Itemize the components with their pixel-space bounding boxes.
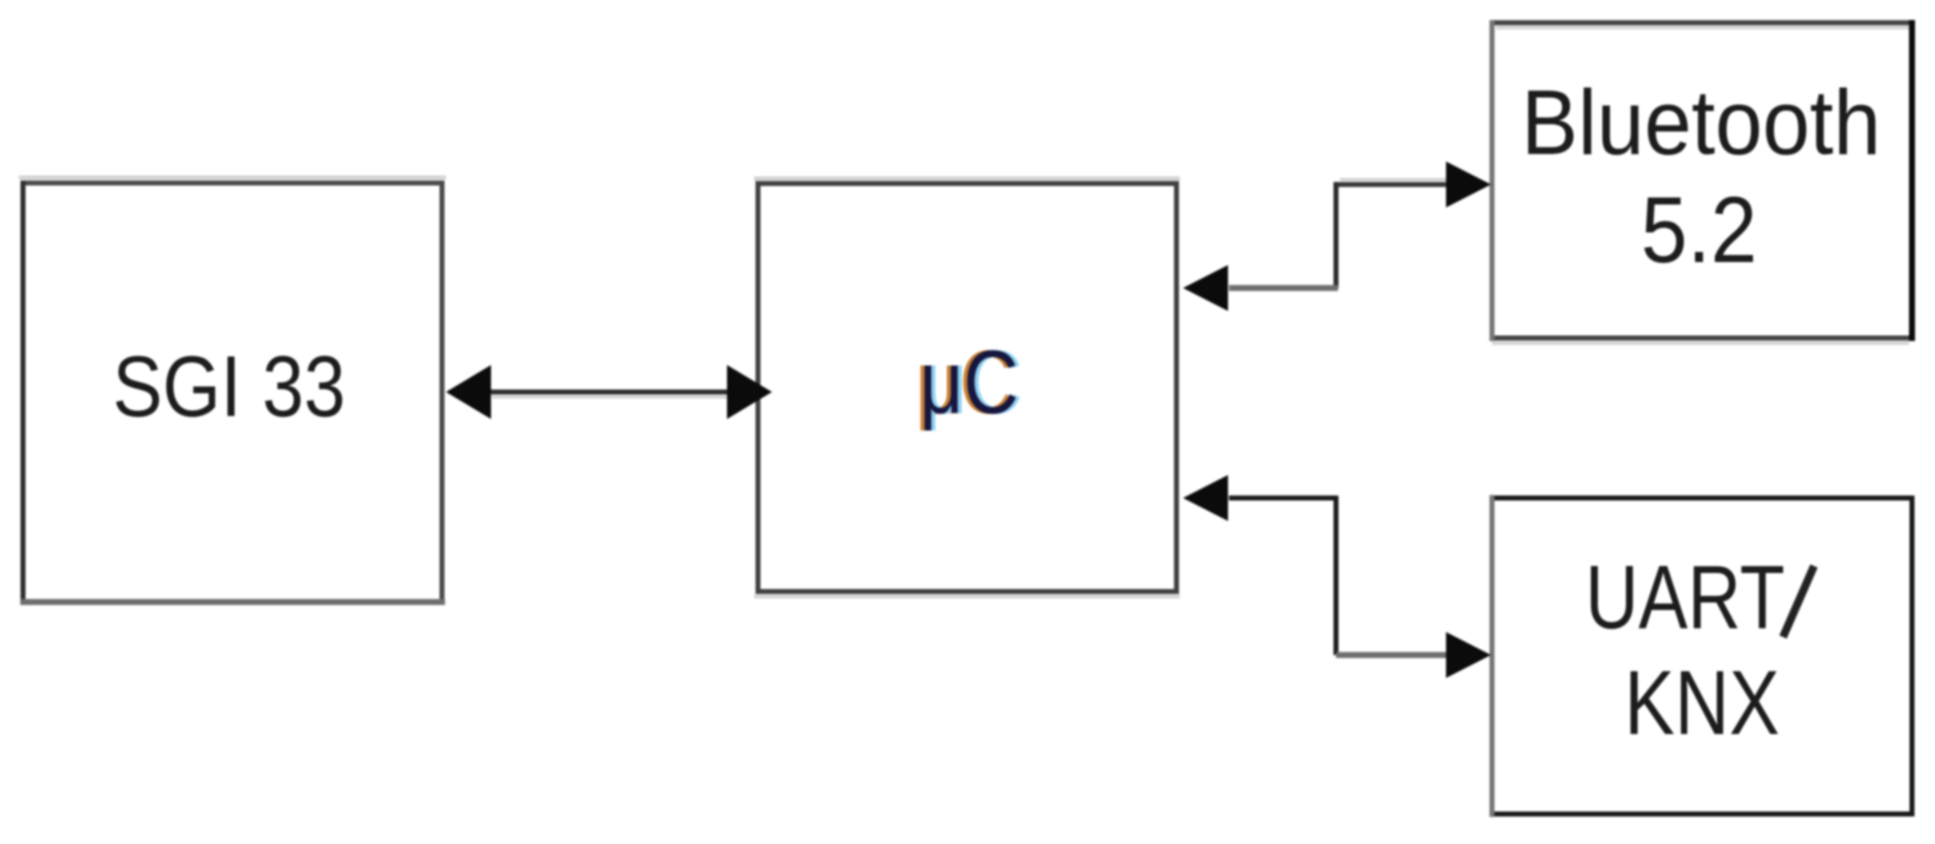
block microcontroller μC	[754, 179, 1180, 597]
arrowhead into μC from UART	[1183, 475, 1228, 521]
block UART/KNX	[1492, 495, 1912, 817]
svg-text:Bluetooth: Bluetooth	[1521, 71, 1881, 174]
arrowhead into Bluetooth	[1446, 162, 1491, 208]
label μC	[915, 331, 1022, 432]
arrowhead into UART/KNX	[1446, 632, 1491, 678]
wire UART link lower horizontal (gray)	[1336, 652, 1448, 658]
arrowhead into SGI 33 (left)	[446, 365, 491, 419]
svg-text:μC: μC	[919, 331, 1018, 432]
block Bluetooth 5.2	[1492, 20, 1912, 343]
label Bluetooth	[1521, 71, 1881, 174]
label KNX	[1624, 651, 1779, 753]
block SGI 33	[19, 178, 446, 606]
svg-text:5.2: 5.2	[1641, 176, 1757, 282]
label SGI 33	[113, 339, 346, 435]
arrowhead into μC (right)	[727, 365, 772, 419]
svg-text:KNX: KNX	[1624, 651, 1779, 753]
label 5.2	[1641, 176, 1757, 282]
wire vertical segment UART link	[1334, 496, 1339, 655]
wire vertical segment Bluetooth link	[1334, 182, 1339, 288]
svg-text:SGI 33: SGI 33	[113, 339, 346, 435]
wire μC to Bluetooth (upper horizontal into Bluetooth)	[1336, 180, 1448, 185]
wire bidirectional SGI33 to μC	[488, 392, 730, 397]
wire Bluetooth link into μC (gray horizontal)	[1229, 285, 1338, 291]
label UART/	[1585, 548, 1814, 648]
svg-text:UART: UART	[1585, 548, 1785, 648]
arrowhead into μC from Bluetooth	[1183, 265, 1228, 311]
wire UART link into μC (black horizontal)	[1229, 496, 1338, 501]
